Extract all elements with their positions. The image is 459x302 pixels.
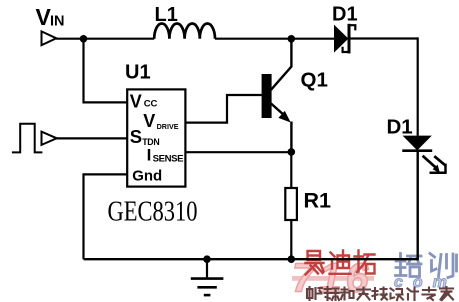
inductor L1 <box>154 23 215 38</box>
node STDN input terminal triangle <box>42 132 57 145</box>
wire VIN junction down to Vcc pin <box>84 39 129 103</box>
diode D1 schottky <box>334 24 355 54</box>
LED light emission arrows <box>423 156 447 174</box>
resistor R1 <box>285 188 297 220</box>
watermark maroon tagline row <box>307 287 453 300</box>
node junction VIN rail <box>80 35 88 43</box>
svg-text:D1: D1 <box>332 4 358 26</box>
wire VIN to L1 <box>56 38 154 40</box>
svg-text:R1: R1 <box>304 189 332 213</box>
input pulse waveform symbol <box>12 124 43 153</box>
node junction ground tap <box>203 255 211 263</box>
svg-text:V: V <box>130 92 142 112</box>
watermark blue char pei <box>396 254 422 277</box>
watermark red char tuo <box>355 251 375 274</box>
svg-text:Gnd: Gnd <box>132 168 162 185</box>
node junction emitter sense <box>288 148 296 156</box>
svg-text:SENSE: SENSE <box>153 154 185 165</box>
LED D1 <box>402 136 432 151</box>
transistor Q1 <box>262 42 292 152</box>
svg-text:GEC8310: GEC8310 <box>108 196 198 227</box>
ground symbol <box>191 259 224 295</box>
svg-text:I: I <box>147 145 152 164</box>
svg-text:S: S <box>130 126 142 147</box>
wire R1 to bottom rail <box>290 220 292 259</box>
wire STDN input to U1 <box>57 137 129 139</box>
svg-text:V: V <box>143 111 155 131</box>
wire right vertical to LED <box>417 37 419 135</box>
watermark red char yi <box>306 251 324 275</box>
svg-text:CC: CC <box>144 99 158 110</box>
svg-text:DRIVE: DRIVE <box>157 122 179 131</box>
svg-text:Q1: Q1 <box>301 68 328 91</box>
wire LED to bottom rail <box>417 151 419 261</box>
svg-text:U1: U1 <box>125 61 151 83</box>
svg-text:IN: IN <box>50 14 65 30</box>
node VIN input terminal triangle <box>42 31 57 45</box>
wire L1 to D1 <box>215 38 335 40</box>
wire bottom ground rail <box>84 258 418 260</box>
svg-text:L1: L1 <box>155 4 178 26</box>
node junction collector rail <box>288 35 296 43</box>
node junction R1 bottom <box>288 255 296 263</box>
watermark red char di <box>330 251 351 274</box>
wire Gnd pin to bottom rail <box>84 174 129 259</box>
ic U1 box <box>127 89 185 186</box>
watermark blue char xun <box>430 254 457 278</box>
watermark pink 716 underline stripe <box>292 276 374 281</box>
wire ISENSE to emitter node <box>185 151 291 153</box>
wire VDRIVE to Q1 base <box>185 95 262 123</box>
wire D1 to right corner <box>350 37 418 39</box>
svg-text:D1: D1 <box>387 115 413 138</box>
wire emitter node to R1 <box>290 152 292 189</box>
